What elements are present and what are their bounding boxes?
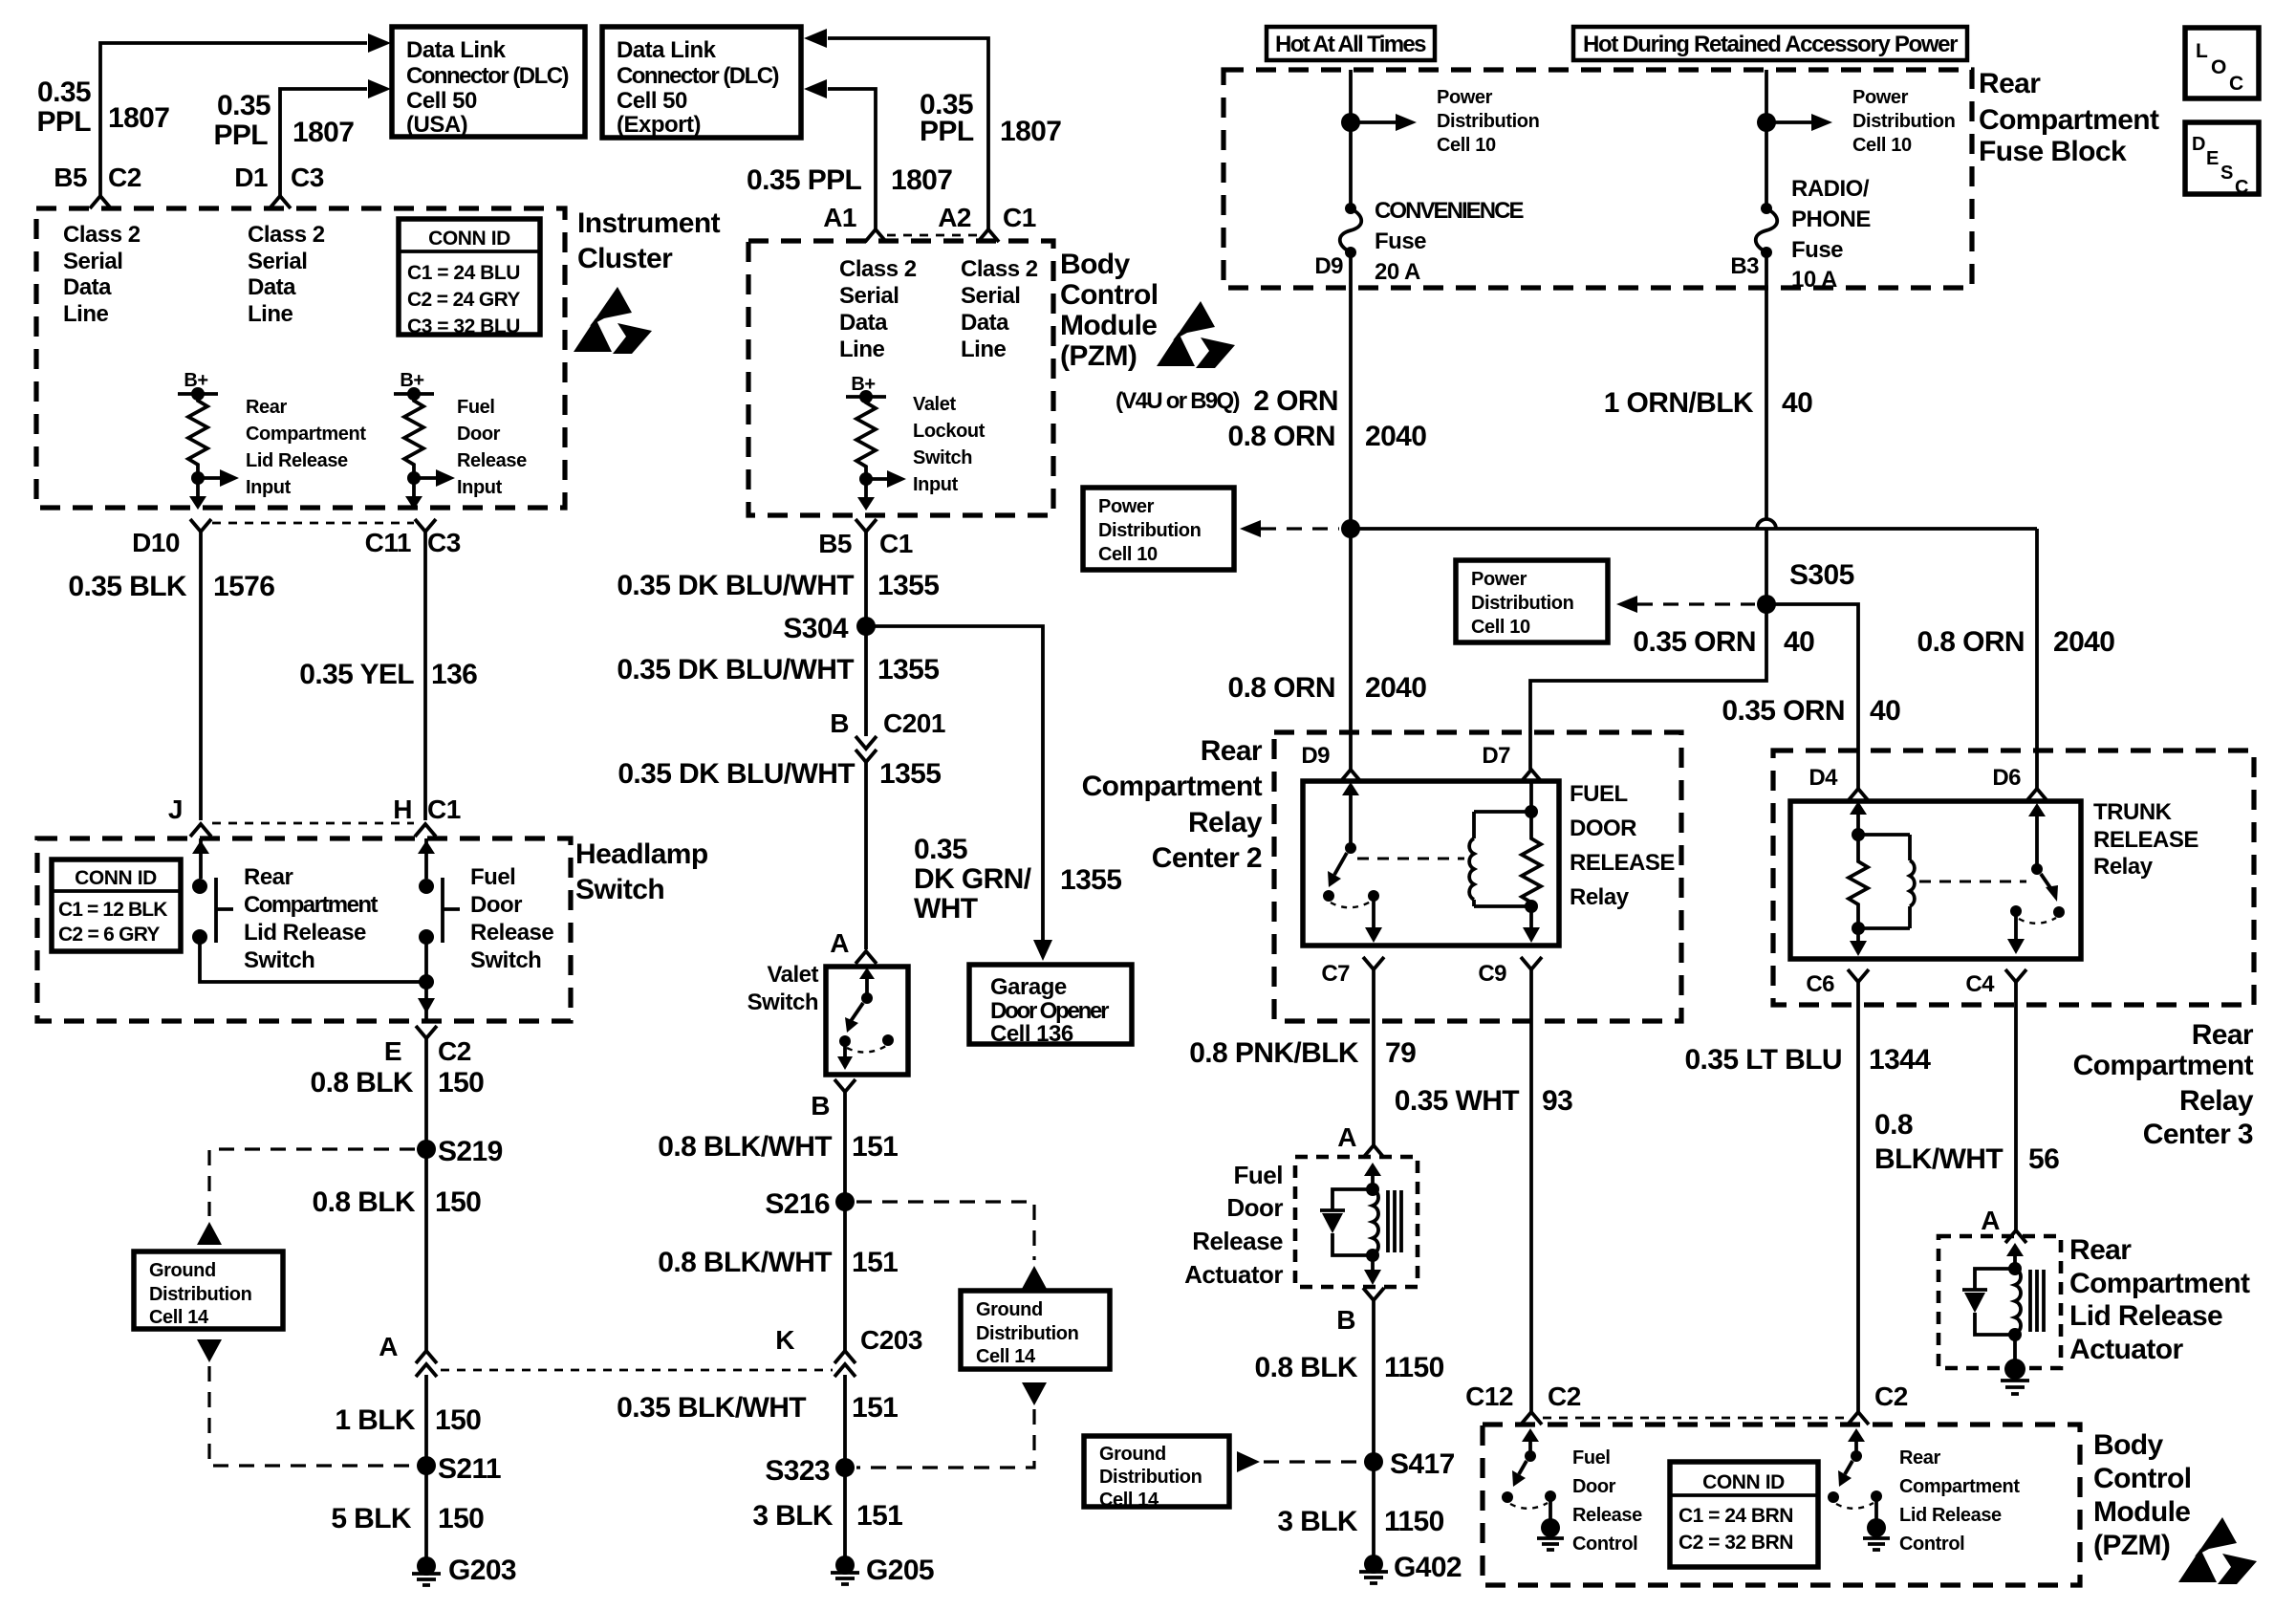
Ground Distribution Cell 14 box (middle)	[961, 1291, 1110, 1369]
svg-text:0.35 ORN: 0.35 ORN	[1722, 695, 1845, 727]
wire label 0.8 BLK/WHT 151	[658, 1131, 898, 1163]
resistor: Rear Compartment Lid Release Input pull-up	[178, 370, 239, 510]
svg-text:0.8 ORN: 0.8 ORN	[1917, 626, 2025, 658]
svg-text:C2: C2	[438, 1036, 471, 1066]
svg-text:0.35 LT BLU: 0.35 LT BLU	[1684, 1044, 1842, 1076]
wire E to S219 (0.8 BLK 150)	[424, 1038, 428, 1149]
svg-text:C3: C3	[291, 163, 324, 192]
horizontal feed wire to D6 of relay center 3	[1351, 527, 2037, 531]
Class 2 Serial Data Line (col 1)	[63, 222, 141, 327]
svg-text:C1 = 24 BRN: C1 = 24 BRN	[1679, 1505, 1793, 1527]
svg-text:Relay: Relay	[2179, 1085, 2254, 1117]
convenience fuse feed wire	[1349, 70, 1353, 208]
svg-text:0.8 BLK: 0.8 BLK	[313, 1186, 416, 1218]
svg-text:FUEL: FUEL	[1570, 781, 1628, 807]
svg-text:Body: Body	[2093, 1429, 2164, 1461]
wire label 0.8 BLK 1150	[1255, 1352, 1444, 1383]
svg-text:3 BLK: 3 BLK	[1277, 1506, 1358, 1537]
svg-text:0.35 ORN: 0.35 ORN	[1633, 626, 1756, 658]
svg-text:Fuel: Fuel	[1234, 1161, 1283, 1189]
relay 2 coil	[1469, 812, 1531, 906]
pin labels J / H / C1	[168, 794, 461, 824]
wire B to S417 (0.8 BLK 1150)	[1372, 1300, 1375, 1462]
wire from instrument cluster D1/C3 to DLC USA (0.35 PPL 1807)	[280, 79, 391, 196]
svg-text:Center 2: Center 2	[1152, 842, 1262, 874]
svg-text:C201: C201	[883, 708, 945, 738]
Ground Distribution Cell 14 box (left)	[134, 1251, 283, 1329]
BCM2 dashed box	[1483, 1425, 2080, 1585]
svg-text:A: A	[379, 1332, 398, 1361]
wire S211 to G203 (5 BLK 150)	[424, 1466, 428, 1564]
svg-text:151: 151	[852, 1131, 898, 1163]
svg-text:Distribution: Distribution	[1437, 111, 1539, 132]
svg-text:Rear: Rear	[2192, 1019, 2254, 1051]
svg-text:Class 2: Class 2	[839, 256, 917, 282]
wire K to S323 (0.35 BLK/WHT 151)	[843, 1375, 847, 1468]
arrow down out of ground distribution ref (middle)	[1022, 1382, 1047, 1405]
svg-text:0.8 PNK/BLK: 0.8 PNK/BLK	[1189, 1037, 1359, 1069]
svg-text:0.8 ORN: 0.8 ORN	[1227, 421, 1335, 452]
garage door opener box	[969, 965, 1132, 1047]
wire label 0.8 BLK 150	[313, 1186, 482, 1218]
svg-text:E: E	[2206, 148, 2219, 169]
label: Fuel Door Release Control	[1572, 1447, 1642, 1555]
svg-text:Control: Control	[1572, 1534, 1637, 1555]
wire label 0.8 BLK 150	[311, 1067, 485, 1099]
splice S216	[765, 1188, 855, 1220]
svg-text:Fuse Block: Fuse Block	[1979, 136, 2127, 167]
relay label TRUNK RELEASE Relay	[2093, 799, 2199, 880]
relay 2 resistor	[1522, 781, 1541, 943]
ground G203	[412, 1555, 516, 1586]
wire C11 to headlamp switch H (0.35 YEL 136)	[423, 532, 427, 820]
label 0.8 ORN 2040 (right)	[1917, 626, 2114, 658]
svg-text:Cell 10: Cell 10	[1852, 135, 1912, 156]
svg-text:DK GRN/: DK GRN/	[914, 863, 1032, 895]
svg-text:CONN ID: CONN ID	[428, 228, 510, 250]
svg-text:Connector (DLC): Connector (DLC)	[617, 63, 779, 89]
svg-text:0.8 BLK: 0.8 BLK	[311, 1067, 414, 1099]
dashed reference from S216 to Ground Distribution (middle)	[856, 1202, 1034, 1260]
headlamp switch label	[575, 838, 708, 905]
svg-text:0.8 BLK/WHT: 0.8 BLK/WHT	[658, 1131, 832, 1163]
svg-text:Switch: Switch	[470, 947, 541, 973]
thin dashed connector line C12-C2	[1543, 1417, 1847, 1420]
svg-text:0.35 DK BLU/WHT: 0.35 DK BLU/WHT	[617, 570, 854, 601]
svg-text:C2: C2	[108, 163, 141, 192]
svg-text:0.8: 0.8	[1874, 1109, 1913, 1141]
svg-text:Rear: Rear	[246, 397, 287, 418]
label: Fuel Door Release Switch	[470, 864, 553, 973]
svg-text:Lid Release: Lid Release	[1899, 1505, 2002, 1526]
svg-text:Power: Power	[1437, 87, 1493, 108]
svg-text:150: 150	[435, 1186, 481, 1218]
label: Power Distribution Cell 10 (right fuse)	[1852, 87, 1955, 156]
wire S216 to K (0.8 BLK/WHT 151)	[843, 1202, 847, 1351]
svg-text:Rear: Rear	[1899, 1447, 1940, 1469]
svg-text:136: 136	[431, 659, 477, 690]
wire S417 to G402 (3 BLK 1150)	[1372, 1462, 1375, 1559]
svg-text:C2: C2	[1548, 1382, 1581, 1411]
relay center 2 dashed box	[1274, 732, 1681, 1021]
label (V4U or B9Q) 2 ORN	[1116, 385, 1338, 417]
svg-text:Data: Data	[63, 274, 112, 300]
CONN ID box (BCM2)	[1670, 1462, 1818, 1567]
svg-text:D7: D7	[1482, 743, 1510, 769]
svg-text:Module: Module	[2093, 1496, 2190, 1528]
svg-text:Distribution: Distribution	[1852, 111, 1955, 132]
ESD symbol (instrument cluster)	[574, 287, 652, 354]
svg-text:0.35 BLK/WHT: 0.35 BLK/WHT	[617, 1392, 806, 1424]
svg-text:1150: 1150	[1384, 1352, 1444, 1383]
svg-text:1807: 1807	[891, 164, 952, 196]
svg-text:Module: Module	[1060, 310, 1157, 341]
junction + arrow to power distribution (convenience)	[1341, 113, 1417, 132]
svg-text:(PZM): (PZM)	[1060, 340, 1137, 372]
pin labels D1 / C3	[234, 163, 324, 192]
svg-text:C1: C1	[879, 529, 913, 558]
svg-text:1355: 1355	[877, 654, 939, 685]
svg-text:Power: Power	[1852, 87, 1909, 108]
svg-text:C1 = 12 BLK: C1 = 12 BLK	[58, 899, 167, 921]
svg-text:151: 151	[852, 1392, 898, 1424]
svg-text:150: 150	[438, 1503, 484, 1534]
svg-text:1 BLK: 1 BLK	[335, 1404, 416, 1436]
svg-text:A1: A1	[823, 203, 856, 232]
wire label 3 BLK 1150	[1277, 1506, 1443, 1537]
svg-text:Distribution: Distribution	[1098, 520, 1201, 541]
svg-text:Class 2: Class 2	[63, 222, 141, 248]
svg-text:1355: 1355	[877, 570, 939, 601]
svg-text:Actuator: Actuator	[2069, 1334, 2183, 1365]
CONVENIENCE fuse	[1314, 198, 1524, 285]
svg-text:Instrument: Instrument	[577, 207, 721, 239]
svg-text:Garage: Garage	[990, 974, 1067, 1000]
svg-text:Ground: Ground	[976, 1299, 1043, 1320]
CONN ID box (instrument cluster)	[399, 219, 540, 337]
wire S219 to A (0.8 BLK 150)	[424, 1149, 428, 1351]
svg-text:PPL: PPL	[213, 120, 268, 151]
svg-text:Door: Door	[1572, 1476, 1616, 1497]
inline connector A (double chevron)	[379, 1332, 437, 1377]
svg-text:Cell 14: Cell 14	[1099, 1490, 1159, 1511]
svg-text:5 BLK: 5 BLK	[331, 1503, 412, 1534]
svg-text:K: K	[775, 1325, 794, 1355]
svg-text:H: H	[393, 794, 412, 824]
Class 2 Serial Data Line (col 2)	[248, 222, 325, 327]
actuator 1 coil with diode	[1320, 1163, 1401, 1285]
pin D9 chevron into relay	[1301, 743, 1361, 782]
svg-text:S216: S216	[765, 1188, 830, 1220]
svg-text:C2: C2	[1874, 1382, 1908, 1411]
valet switch box	[826, 967, 908, 1075]
svg-text:0.35 DK BLU/WHT: 0.35 DK BLU/WHT	[617, 758, 855, 790]
relay 3 switch (armature)	[2007, 803, 2065, 954]
pin labels B5 / C2	[54, 163, 141, 192]
dashed reference to Power Distribution Cell 10 (left box)	[1261, 527, 1339, 530]
svg-text:E: E	[384, 1036, 401, 1066]
wire S305 down and left to D7 of relay 2 (0.35 ORN 40)	[1530, 604, 1766, 770]
svg-text:0.35: 0.35	[914, 834, 967, 865]
relay 3 mechanical dashed link	[1919, 881, 2026, 883]
wire valet B to S216 (0.8 BLK/WHT 151)	[843, 1092, 847, 1202]
svg-text:Cell 50: Cell 50	[617, 88, 687, 114]
svg-text:Door: Door	[1226, 1193, 1283, 1222]
connector chevron at rear actuator top (A)	[1981, 1206, 2026, 1243]
wire B3 fuse down to S305 (1 ORN/BLK 40) with hop over feed wire	[1757, 252, 1776, 604]
svg-text:40: 40	[1784, 626, 1814, 658]
svg-text:J: J	[168, 794, 183, 824]
Class 2 Serial Data Line (BCM col 1)	[839, 256, 917, 362]
svg-text:B: B	[830, 708, 849, 738]
wire B5 to S304 (0.35 DK BLU/WHT 1355)	[864, 532, 868, 626]
svg-text:0.35: 0.35	[37, 76, 91, 108]
svg-text:Valet: Valet	[913, 394, 956, 415]
arrow up into ground distribution ref (middle)	[1022, 1266, 1047, 1289]
svg-text:WHT: WHT	[914, 893, 978, 925]
pin D4 chevron into relay	[1809, 765, 1869, 801]
svg-text:Line: Line	[961, 337, 1006, 362]
svg-text:0.35 DK BLU/WHT: 0.35 DK BLU/WHT	[617, 654, 854, 685]
junction + arrow to power distribution (radio)	[1757, 113, 1832, 132]
svg-text:Rear: Rear	[1979, 68, 2041, 99]
relay 2 switch (armature)	[1323, 782, 1382, 943]
svg-text:A: A	[1981, 1206, 2000, 1235]
svg-text:Data Link: Data Link	[617, 37, 717, 63]
svg-text:C11: C11	[365, 528, 411, 557]
dashed reference to S417	[1264, 1460, 1362, 1463]
arrowhead into power distribution box	[1240, 520, 1261, 537]
svg-text:1355: 1355	[1060, 864, 1121, 896]
svg-text:B: B	[1336, 1305, 1355, 1335]
svg-text:Line: Line	[63, 301, 108, 327]
inline connector K / C203 (double chevron)	[775, 1325, 922, 1377]
svg-text:Relay: Relay	[1188, 807, 1263, 838]
BCM dashed box	[748, 241, 1053, 515]
svg-text:Cell 10: Cell 10	[1471, 617, 1530, 638]
svg-text:1355: 1355	[879, 758, 941, 790]
svg-text:C2 = 6 GRY: C2 = 6 GRY	[58, 924, 160, 946]
thin dashed connector line D10-C11	[212, 522, 414, 525]
svg-text:Ground: Ground	[149, 1260, 216, 1281]
svg-text:Cell 14: Cell 14	[976, 1346, 1036, 1367]
wire label 1 BLK 150	[335, 1404, 481, 1436]
actuator label: Rear Compartment Lid Release Actuator	[2069, 1234, 2250, 1365]
wire C4 down to rear actuator (0.8 BLK/WHT 56)	[2014, 982, 2018, 1230]
wire label 0.35 PPL 1807 (second wire)	[213, 90, 354, 151]
ground G402	[1359, 1552, 1462, 1583]
connector chevron at cluster top (D1)	[270, 196, 291, 208]
svg-text:C: C	[2235, 177, 2248, 198]
svg-text:Control: Control	[1060, 279, 1158, 311]
wire label 0.35 WHT 93	[1395, 1085, 1572, 1117]
svg-text:C3 = 32 BLU: C3 = 32 BLU	[407, 315, 520, 337]
connector chevron below valet switch (B)	[834, 1079, 856, 1092]
svg-text:RELEASE: RELEASE	[1570, 850, 1675, 876]
svg-text:150: 150	[438, 1067, 484, 1099]
svg-text:3 BLK: 3 BLK	[752, 1500, 834, 1532]
svg-text:Distribution: Distribution	[1099, 1467, 1202, 1488]
svg-text:Cluster: Cluster	[577, 243, 673, 274]
dashed reference from box to S211	[209, 1366, 414, 1466]
arrow down out of ground distribution ref	[197, 1339, 222, 1362]
svg-text:Compartment: Compartment	[2069, 1268, 2250, 1299]
rear compartment lid release actuator dashed box	[1939, 1236, 2061, 1368]
svg-text:Control: Control	[2093, 1463, 2191, 1494]
svg-text:S417: S417	[1390, 1448, 1455, 1480]
svg-text:C6: C6	[1806, 971, 1834, 997]
wire label 0.35 PPL 1807 (left wire)	[36, 76, 169, 138]
svg-text:B5: B5	[54, 163, 87, 192]
svg-text:O: O	[2211, 56, 2226, 78]
svg-text:C3: C3	[427, 528, 461, 557]
Power Distribution Cell 10 box (left)	[1083, 488, 1234, 570]
pin labels C12 / C2	[1465, 1382, 1581, 1411]
svg-text:Switch: Switch	[913, 447, 972, 468]
svg-text:CONN ID: CONN ID	[75, 867, 157, 889]
svg-text:C: C	[2229, 73, 2243, 95]
svg-text:0.8 BLK/WHT: 0.8 BLK/WHT	[658, 1247, 832, 1278]
label: Rear Compartment Lid Release Input	[246, 397, 366, 498]
instrument cluster dashed box	[36, 208, 565, 508]
svg-text:Distribution: Distribution	[976, 1323, 1078, 1344]
svg-text:C9: C9	[1478, 961, 1506, 987]
wire label 0.35 DK GRN/WHT	[914, 834, 1121, 925]
svg-text:Cell 50: Cell 50	[406, 88, 477, 114]
svg-text:1807: 1807	[108, 102, 169, 134]
pin labels A1 / A2 / C1	[823, 203, 1036, 232]
svg-text:D1: D1	[234, 163, 268, 192]
svg-text:79: 79	[1385, 1037, 1416, 1069]
wire label 0.35 YEL 136	[299, 659, 477, 690]
wire label 0.35 DK BLU/WHT 1355	[617, 758, 941, 790]
svg-text:(Export): (Export)	[617, 112, 701, 138]
svg-text:Lockout: Lockout	[913, 421, 986, 442]
pin C7 chevron below relay	[1321, 957, 1384, 987]
svg-text:Release: Release	[470, 920, 553, 946]
valet lockout switch input pull-up resistor	[846, 374, 906, 511]
svg-text:Compartment: Compartment	[1899, 1476, 2020, 1497]
dashed reference from box to S323	[856, 1409, 1034, 1468]
svg-text:Cell 136: Cell 136	[990, 1021, 1073, 1047]
svg-text:C12: C12	[1465, 1382, 1513, 1411]
svg-text:151: 151	[856, 1500, 902, 1532]
svg-text:0.8 BLK: 0.8 BLK	[1255, 1352, 1358, 1383]
svg-text:2040: 2040	[1365, 672, 1426, 704]
connector chevron at valet switch top (A)	[830, 928, 877, 964]
svg-text:Compartment: Compartment	[246, 424, 366, 445]
svg-text:Power: Power	[1471, 569, 1527, 590]
svg-text:Center 3: Center 3	[2143, 1119, 2253, 1150]
svg-text:Input: Input	[457, 477, 503, 498]
wire joining both switches to E	[200, 937, 435, 1021]
svg-text:1807: 1807	[292, 117, 354, 148]
svg-text:B5: B5	[818, 529, 852, 558]
actuator 2 internal ground	[2001, 1335, 2029, 1394]
svg-text:G402: G402	[1394, 1552, 1462, 1583]
pin labels B5 / C1	[818, 529, 913, 558]
svg-text:B3: B3	[1730, 253, 1759, 279]
Data Link Connector (DLC) Cell 50 (USA) box	[392, 27, 585, 138]
svg-text:Fuel: Fuel	[457, 397, 495, 418]
connector chevrons at BCM top	[865, 229, 886, 242]
svg-text:(V4U or B9Q): (V4U or B9Q)	[1116, 388, 1240, 414]
svg-text:Data: Data	[961, 310, 1009, 336]
svg-text:40: 40	[1782, 387, 1812, 419]
svg-text:Class 2: Class 2	[961, 256, 1038, 282]
svg-text:(PZM): (PZM)	[2093, 1530, 2170, 1561]
trunk release relay solid box	[1790, 801, 2081, 959]
wire D10 to headlamp switch J (0.35 BLK 1576)	[199, 532, 203, 820]
svg-text:150: 150	[435, 1404, 481, 1436]
connector chevron at cluster top (B5)	[90, 196, 111, 208]
svg-text:C1: C1	[1003, 203, 1036, 232]
radio/phone fuse feed wire	[1765, 70, 1768, 208]
svg-text:Compartment: Compartment	[244, 892, 379, 918]
Power Distribution Cell 10 box (mid)	[1456, 560, 1608, 642]
wire from instrument cluster B5/C2 to DLC USA (0.35 PPL 1807)	[100, 33, 391, 196]
svg-text:S323: S323	[765, 1455, 830, 1487]
svg-text:Switch: Switch	[747, 990, 818, 1015]
wire C7 to actuator A (0.8 PNK/BLK 79)	[1372, 969, 1375, 1145]
svg-text:Cell 14: Cell 14	[149, 1307, 209, 1328]
wire label 0.8 PNK/BLK 79	[1189, 1037, 1416, 1069]
label: Rear Compartment Lid Release Switch	[244, 864, 379, 973]
svg-text:D9: D9	[1314, 253, 1343, 279]
wire D9 fuse down to relay center 2 (0.8 ORN 2040)	[1349, 252, 1353, 770]
CONN ID box (headlamp switch)	[52, 859, 181, 951]
svg-text:L: L	[2196, 40, 2208, 62]
relay 3 coil feed	[1850, 801, 1867, 935]
svg-text:C4: C4	[1965, 971, 1995, 997]
relay 2 mechanical dashed link	[1357, 858, 1464, 860]
label 1 ORN/BLK 40	[1604, 387, 1812, 419]
svg-text:CONN ID: CONN ID	[1702, 1471, 1785, 1493]
svg-text:C2 = 32 BRN: C2 = 32 BRN	[1679, 1532, 1793, 1554]
svg-text:Rear: Rear	[2069, 1234, 2132, 1266]
svg-text:0.35: 0.35	[217, 90, 271, 121]
svg-text:Data: Data	[248, 274, 296, 300]
label 0.35 ORN 40 (D4 segment)	[1722, 695, 1900, 727]
svg-text:D10: D10	[132, 528, 180, 557]
svg-text:0.35 YEL: 0.35 YEL	[299, 659, 414, 690]
ESD symbol (BCM)	[1157, 301, 1235, 368]
fuel door release switch	[418, 838, 460, 945]
branch wire S304 to garage door opener (0.35 DK GRN/WHT 1355)	[866, 626, 1052, 961]
svg-text:0.35 WHT: 0.35 WHT	[1395, 1085, 1520, 1117]
svg-text:Input: Input	[913, 474, 959, 495]
svg-text:S211: S211	[438, 1453, 501, 1485]
splice S323	[765, 1455, 855, 1487]
svg-text:S219: S219	[438, 1136, 503, 1167]
rear compartment lid release switch	[192, 838, 233, 945]
thin dashed connector line A1-A2	[887, 234, 977, 237]
wire label 5 BLK 150	[331, 1503, 484, 1534]
fuel door release relay solid box	[1303, 781, 1559, 946]
svg-text:DOOR: DOOR	[1570, 816, 1636, 841]
svg-text:Compartment: Compartment	[2073, 1050, 2254, 1081]
wire from BCM A1 to DLC Export	[804, 79, 876, 229]
svg-text:TRUNK: TRUNK	[2093, 799, 2173, 825]
svg-text:40: 40	[1870, 695, 1900, 727]
relay 3 coil	[1858, 835, 1915, 928]
actuator label: Fuel Door Release Actuator	[1184, 1161, 1283, 1289]
svg-text:0.35 PPL: 0.35 PPL	[747, 164, 862, 196]
connector chevron below headlamp switch (E)	[416, 1026, 437, 1038]
Hot At All Times box	[1267, 27, 1435, 60]
ground G205	[831, 1555, 934, 1586]
relay 3 resistor	[1849, 835, 1868, 928]
